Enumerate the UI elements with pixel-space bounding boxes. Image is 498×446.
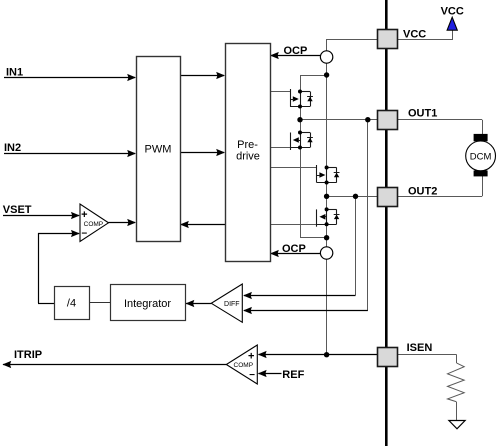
svg-text:DCM: DCM xyxy=(470,151,492,162)
svg-text:Pre-: Pre- xyxy=(237,139,258,151)
svg-text:drive: drive xyxy=(236,151,260,163)
svg-text:VCC: VCC xyxy=(441,6,464,18)
svg-text:COMP: COMP xyxy=(234,362,254,369)
svg-text:COMP: COMP xyxy=(84,221,104,228)
svg-text:OUT2: OUT2 xyxy=(408,186,437,198)
svg-text:REF: REF xyxy=(282,369,304,381)
svg-text:ISEN: ISEN xyxy=(407,342,433,354)
svg-text:PWM: PWM xyxy=(145,143,172,155)
svg-text:ITRIP: ITRIP xyxy=(14,349,42,361)
svg-text:/4: /4 xyxy=(67,298,76,310)
svg-text:IN2: IN2 xyxy=(4,142,21,154)
svg-text:Integrator: Integrator xyxy=(124,298,171,310)
svg-text:OUT1: OUT1 xyxy=(408,108,437,120)
svg-text:OCP: OCP xyxy=(284,45,308,57)
svg-text:+: + xyxy=(248,351,254,363)
svg-text:−: − xyxy=(249,370,255,381)
svg-text:OCP: OCP xyxy=(282,243,306,255)
svg-text:DIFF: DIFF xyxy=(224,301,240,308)
svg-text:+: + xyxy=(81,209,87,221)
svg-text:IN1: IN1 xyxy=(6,66,23,78)
svg-text:−: − xyxy=(81,228,87,239)
svg-text:VSET: VSET xyxy=(3,204,32,216)
svg-text:VCC: VCC xyxy=(403,28,426,40)
